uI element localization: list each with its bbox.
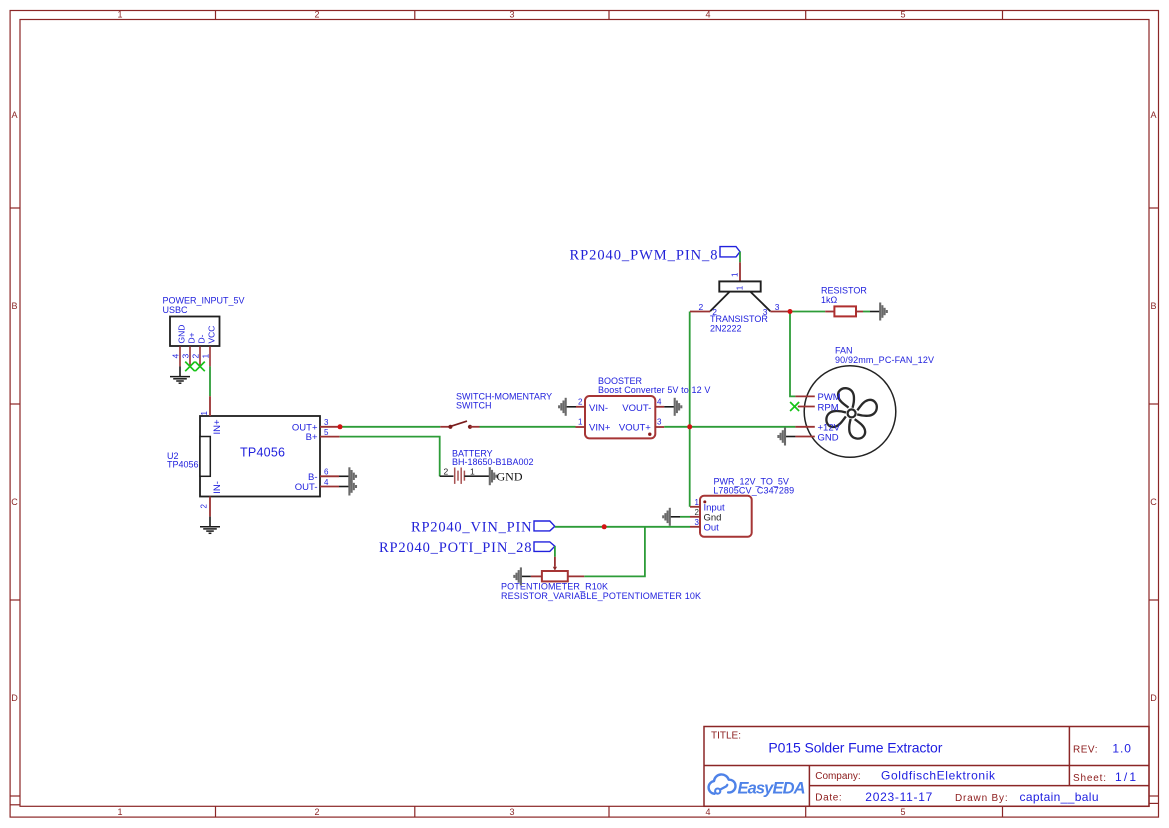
svg-text:VIN+: VIN+: [589, 423, 611, 434]
ground at booster pin 2: [559, 398, 576, 416]
svg-text:3: 3: [695, 518, 700, 527]
svg-text:1: 1: [695, 498, 700, 507]
svg-text:1.0: 1.0: [1112, 742, 1131, 756]
fan body: [804, 366, 896, 458]
net flag RP2040_PWM_PIN_8: [570, 247, 741, 264]
wire flag to transistor pin 1: [739, 252, 741, 263]
svg-text:4: 4: [171, 354, 181, 359]
svg-text:GoldfischElektronik: GoldfischElektronik: [881, 769, 996, 783]
svg-text:Company:: Company:: [815, 771, 860, 782]
svg-text:4: 4: [324, 478, 329, 487]
svg-text:2: 2: [314, 807, 319, 817]
svg-text:IN-: IN-: [212, 481, 223, 494]
svg-text:D: D: [11, 693, 18, 703]
wire 12V vertical: transistor pin2 to L7805 Input: [689, 312, 691, 507]
ground at pot left pin: [514, 567, 531, 585]
svg-text:L7805CV_C347289: L7805CV_C347289: [713, 486, 794, 496]
connector USBC POWER_INPUT_5V: [163, 296, 245, 367]
svg-text:3: 3: [657, 418, 662, 427]
fan 90/92mm PC-FAN 12V: [795, 346, 934, 458]
svg-text:2: 2: [444, 467, 449, 477]
svg-text:OUT-: OUT-: [295, 482, 318, 493]
svg-text:4: 4: [705, 807, 710, 817]
svg-text:2: 2: [699, 302, 704, 312]
svg-text:90/92mm_PC-FAN_12V: 90/92mm_PC-FAN_12V: [835, 355, 934, 365]
svg-text:2N2222: 2N2222: [710, 324, 742, 334]
wire resistor to ground: [863, 311, 870, 313]
wire B+ to battery: [340, 437, 440, 477]
svg-text:A: A: [11, 110, 17, 120]
U2 pin 3 OUT+: [320, 426, 340, 428]
svg-text:Sheet:: Sheet:: [1073, 773, 1106, 784]
wire pot right terminal to VIN wire: [584, 527, 645, 577]
svg-text:POWER_INPUT_5V: POWER_INPUT_5V: [163, 296, 245, 306]
svg-text:C: C: [11, 497, 18, 507]
svg-text:Date:: Date:: [815, 793, 841, 804]
svg-text:B: B: [1150, 301, 1156, 311]
svg-text:REV:: REV:: [1073, 745, 1098, 756]
potentiometer R10K: [501, 557, 701, 601]
ground at resistor: [870, 303, 887, 321]
ground at L7805 Gnd: [663, 508, 680, 526]
svg-text:A: A: [1150, 110, 1156, 120]
booster pin 1 VIN+: [576, 426, 586, 428]
svg-text:USBC: USBC: [163, 305, 189, 315]
svg-text:BH-18650-B1BA002: BH-18650-B1BA002: [452, 457, 534, 467]
wire USBC VCC to U2 IN+: [209, 366, 211, 396]
svg-text:5: 5: [324, 428, 329, 437]
fan pin +12V: [795, 426, 814, 428]
regulator PWR_12V_TO_5V L7805CV: [690, 476, 794, 536]
wire junction down to fan PWM: [790, 312, 795, 397]
svg-text:VOUT-: VOUT-: [622, 403, 651, 414]
svg-text:Out: Out: [704, 523, 720, 534]
svg-text:5: 5: [900, 807, 905, 817]
svg-text:Boost Converter 5V to 12 V: Boost Converter 5V to 12 V: [598, 385, 710, 395]
L7805 pin 3 Out: [690, 526, 700, 528]
no-connect X on USBC pin 2: [195, 362, 205, 372]
svg-text:captain__balu: captain__balu: [1020, 790, 1099, 804]
battery pin 1: [464, 475, 489, 477]
transistor arms: [710, 292, 730, 312]
svg-text:1: 1: [117, 807, 122, 817]
svg-text:D-: D-: [197, 334, 207, 343]
ground at U2 pin 4 OUT-: [339, 478, 356, 496]
svg-text:RESISTOR_VARIABLE_POTENTIOMETE: RESISTOR_VARIABLE_POTENTIOMETER 10K: [501, 591, 701, 601]
transistor 2N2222: [690, 262, 790, 333]
USBC pin 4 GND: [179, 346, 181, 366]
U2 pin 5 B+: [320, 436, 340, 438]
EasyEDA logo: [709, 774, 806, 797]
svg-text:RP2040_POTI_PIN_28: RP2040_POTI_PIN_28: [379, 540, 532, 556]
svg-text:3: 3: [509, 807, 514, 817]
svg-text:1kΩ: 1kΩ: [821, 295, 838, 305]
ground GND at battery pin 1: [490, 467, 523, 485]
transistor pin 3: [770, 311, 790, 313]
USBC pin 2 D-: [199, 346, 201, 366]
fan pin RPM: [798, 406, 815, 408]
L7805 pin 2 Gnd: [690, 516, 700, 518]
svg-text:3: 3: [324, 418, 329, 427]
pot right pin: [568, 575, 584, 577]
wire transistor pin3 to resistor: [790, 311, 825, 313]
L7805 pin 1 Input: [690, 506, 700, 508]
junction at U2 OUT+: [338, 424, 343, 429]
ground at USBC pin 4: [170, 366, 190, 383]
battery plates: [455, 468, 465, 484]
U2 pin 2 IN-: [209, 497, 211, 517]
svg-text:VCC: VCC: [207, 326, 217, 344]
svg-text:IN+: IN+: [212, 419, 223, 435]
wire L7805 Gnd to ground: [680, 516, 690, 518]
svg-text:3: 3: [763, 307, 768, 317]
svg-text:2023-11-17: 2023-11-17: [865, 790, 932, 804]
svg-text:VIN-: VIN-: [589, 403, 608, 414]
svg-text:TP4056: TP4056: [240, 446, 285, 460]
svg-text:2: 2: [314, 10, 319, 20]
junction booster VOUT+: [687, 424, 692, 429]
net flag RP2040_POTI_PIN_28: [379, 540, 555, 556]
wire POTI flag down to pot wiper: [554, 546, 556, 557]
no-connect X on USBC pin 3: [185, 362, 195, 372]
booster BOOSTER Boost Converter 5V to 12V: [576, 376, 711, 438]
wire VIN flag to L7805 Out: [555, 526, 690, 528]
svg-text:TRANSISTOR: TRANSISTOR: [710, 314, 768, 324]
transistor base bar: [719, 281, 760, 291]
USBC pin 1 VCC: [209, 346, 211, 366]
booster pin 2 VIN-: [576, 406, 585, 408]
svg-text:TITLE:: TITLE:: [711, 730, 741, 741]
svg-text:RPM: RPM: [818, 402, 839, 413]
switch SWITCH-MOMENTARY: [440, 392, 552, 429]
pot body: [542, 571, 568, 581]
ground at fan GND: [778, 428, 795, 446]
svg-text:Drawn By:: Drawn By:: [955, 793, 1008, 804]
ground at booster pin 4: [664, 398, 681, 416]
svg-text:P015 Solder Fume Extractor: P015 Solder Fume Extractor: [768, 739, 942, 755]
svg-text:1: 1: [201, 354, 211, 359]
svg-text:RP2040_VIN_PIN: RP2040_VIN_PIN: [411, 520, 532, 536]
fan pin PWM: [795, 395, 814, 397]
pot left pin: [531, 575, 542, 577]
svg-text:1: 1: [731, 272, 740, 277]
svg-text:C: C: [1150, 497, 1157, 507]
U2 pin 4 OUT-: [320, 486, 339, 488]
battery pin 2: [440, 475, 454, 477]
svg-text:3: 3: [181, 354, 191, 359]
svg-text:2: 2: [191, 354, 201, 359]
U2 pin 1 IN+: [209, 396, 211, 416]
title block: [704, 727, 1149, 807]
battery BH-18650-B1BA002: [440, 449, 534, 484]
USBC pin 3 D+: [189, 346, 191, 366]
svg-text:3: 3: [775, 302, 780, 312]
ground at U2 pin 6 B-: [339, 467, 356, 485]
no-connect X on fan RPM: [790, 402, 799, 411]
svg-text:B+: B+: [306, 432, 318, 443]
svg-text:D: D: [1150, 693, 1157, 703]
svg-text:2: 2: [200, 504, 209, 509]
resistor 1k: [821, 286, 867, 317]
svg-text:2: 2: [578, 397, 583, 406]
svg-text:RP2040_PWM_PIN_8: RP2040_PWM_PIN_8: [570, 247, 718, 263]
ground at U2 pin 2 IN-: [200, 517, 220, 534]
junction at transistor pin 3: [788, 309, 793, 314]
svg-text:2: 2: [712, 307, 717, 317]
svg-text:EasyEDA: EasyEDA: [738, 780, 806, 798]
svg-text:4: 4: [705, 10, 710, 20]
svg-text:D+: D+: [187, 332, 197, 343]
junction on VIN wire: [602, 524, 607, 529]
IC U2 TP4056: [167, 396, 340, 516]
wire switch to booster VIN+: [480, 426, 576, 428]
svg-text:SWITCH: SWITCH: [456, 401, 492, 411]
net flag RP2040_VIN_PIN: [411, 520, 555, 536]
svg-text:4: 4: [657, 397, 662, 406]
booster pin 4 VOUT-: [655, 406, 664, 408]
booster pin 3 VOUT+: [655, 426, 664, 428]
pot wiper pin: [554, 557, 556, 567]
U2 pin 6 B-: [320, 475, 339, 477]
svg-text:1: 1: [736, 285, 745, 290]
svg-text:TP4056: TP4056: [167, 460, 199, 470]
svg-text:B: B: [11, 301, 17, 311]
svg-text:GND: GND: [818, 432, 839, 443]
svg-text:3: 3: [509, 10, 514, 20]
svg-text:2: 2: [695, 508, 700, 517]
svg-text:1: 1: [200, 411, 209, 416]
svg-text:6: 6: [324, 468, 329, 477]
svg-text:1: 1: [117, 10, 122, 20]
transistor pin 1 base: [739, 262, 741, 281]
svg-text:GND: GND: [177, 325, 187, 344]
svg-text:1/1: 1/1: [1115, 770, 1136, 784]
svg-text:VOUT+: VOUT+: [619, 423, 651, 434]
fan pin GND: [795, 436, 814, 438]
transistor pin 2: [690, 311, 710, 313]
svg-text:1: 1: [470, 467, 475, 477]
wire OUT+ to switch: [340, 426, 440, 428]
wire booster VOUT+ to fan +12V: [664, 426, 795, 428]
resistor body: [834, 306, 856, 316]
svg-text:GND: GND: [497, 470, 523, 484]
svg-text:5: 5: [900, 10, 905, 20]
svg-text:1: 1: [578, 418, 583, 427]
